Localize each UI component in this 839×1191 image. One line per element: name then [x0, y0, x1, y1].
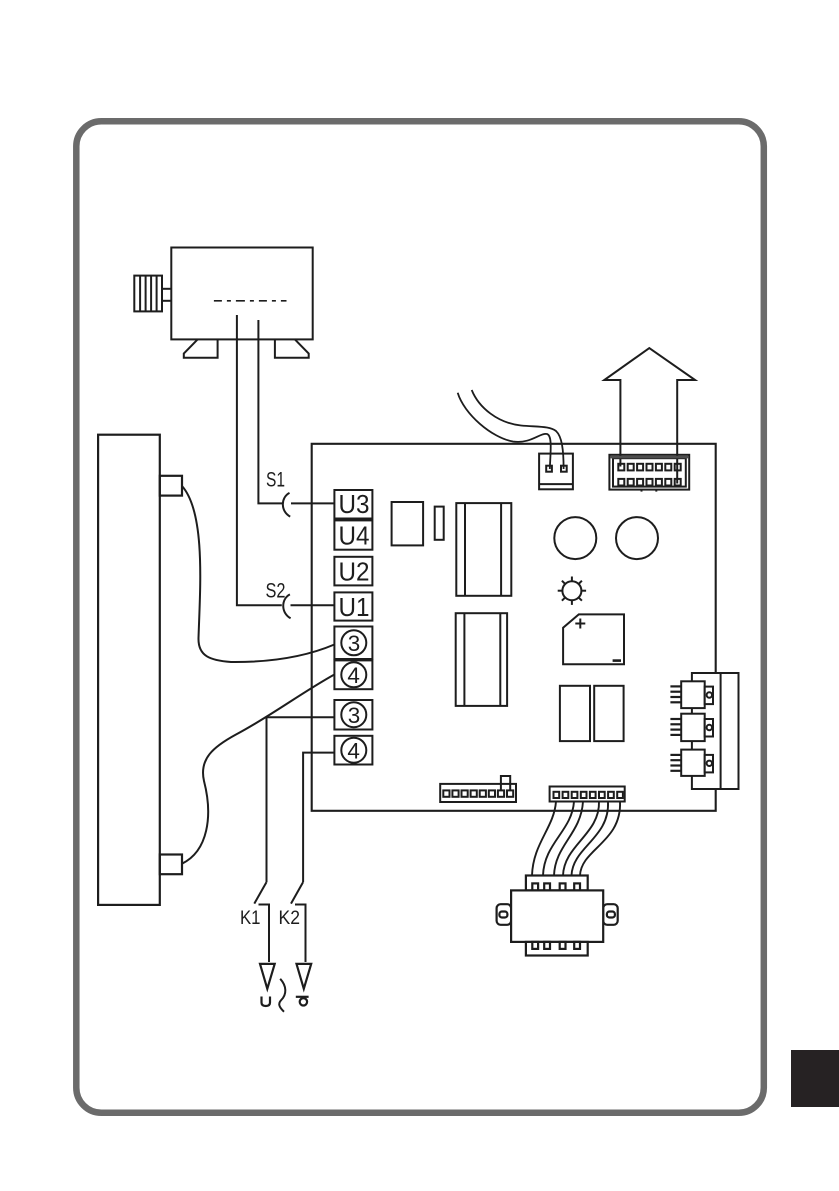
capacitor C2: [616, 517, 658, 559]
symbol d: [296, 997, 309, 1006]
wires J4 to transformer: [532, 802, 620, 876]
terminal 3 lower: [334, 700, 372, 730]
separator wave: [279, 979, 285, 1012]
arrow (air flow): [604, 348, 695, 483]
svg-text:U4: U4: [339, 523, 370, 551]
jack X2: [670, 714, 713, 741]
symbol u: [262, 997, 271, 1007]
terminal 3 upper: [334, 627, 372, 660]
svg-text:K2: K2: [279, 907, 301, 929]
connector J1 (2-pin): [539, 454, 573, 490]
relay RL1: [456, 503, 511, 596]
heating element: [98, 435, 182, 905]
connector J2 (14-pin): [609, 455, 689, 492]
relay RL4: [594, 686, 623, 741]
terminal 4 lower: [334, 736, 372, 765]
terminal 4 upper: [334, 660, 372, 689]
wire S1 to U3: [291, 502, 334, 504]
jack X3: [670, 750, 713, 776]
capacitor C1: [554, 517, 596, 559]
terminal U1: [334, 592, 372, 622]
right edge panel: [692, 673, 739, 789]
connector J4 (8-pin): [550, 787, 625, 802]
IC U5: [392, 502, 424, 545]
svg-text:K1: K1: [240, 907, 261, 929]
PCB board outline: [312, 444, 716, 811]
svg-text:U1: U1: [339, 594, 370, 622]
relay RL3: [560, 686, 590, 741]
wire element to terminal 3: [182, 486, 334, 662]
connector J3 (8-pin): [440, 784, 516, 802]
arrow K2: [297, 964, 312, 989]
wire terminal 4 lower to K2: [303, 753, 334, 883]
svg-text:S1: S1: [266, 469, 285, 492]
wire terminal 3 lower to K1: [267, 717, 335, 882]
terminal U3: [334, 490, 372, 519]
svg-text:4: 4: [347, 663, 360, 688]
contact K1: [254, 882, 269, 962]
terminal U2: [334, 557, 372, 587]
battery B1: [563, 614, 624, 664]
wires to connector J1: [458, 390, 564, 469]
svg-text:U3: U3: [339, 491, 370, 519]
transformer T1: [497, 876, 618, 956]
wire element to terminal 4: [182, 675, 334, 864]
jack X1: [670, 681, 713, 708]
wire motor to S1: [258, 320, 282, 503]
arrow K1: [260, 964, 275, 989]
relay RL2: [456, 613, 507, 706]
svg-text:3: 3: [348, 703, 361, 728]
trimmer potentiometer: [558, 577, 586, 605]
svg-text:3: 3: [348, 631, 361, 656]
wire motor to S2: [237, 315, 282, 605]
jumper on J3 pins 7-8: [501, 776, 510, 790]
contact K2: [291, 882, 306, 962]
svg-text:S2: S2: [266, 580, 286, 603]
wire S2 to U1: [291, 604, 335, 606]
switch S1: [283, 493, 290, 517]
svg-text:U2: U2: [339, 559, 370, 587]
switch S2: [283, 594, 290, 618]
svg-text:4: 4: [347, 739, 360, 764]
motor M: [134, 248, 312, 358]
resistor R1: [435, 507, 444, 540]
terminal U4: [334, 520, 372, 550]
